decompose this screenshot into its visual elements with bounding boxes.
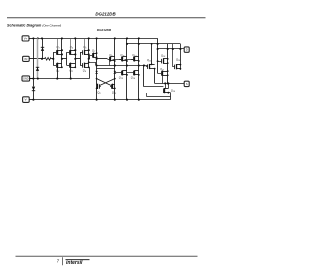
svg-text:Q1: Q1 bbox=[56, 45, 59, 50]
wire rail to IN vertical bbox=[42, 38, 44, 58]
wire gate link A bbox=[113, 59, 122, 61]
footer divider bbox=[62, 257, 64, 265]
transistor Q4 bbox=[67, 63, 77, 74]
wire Q17 gate feed bbox=[158, 73, 162, 75]
transistor Q14 bbox=[131, 70, 140, 80]
node IN-x42 bbox=[41, 58, 43, 60]
wire LS top bar bbox=[97, 68, 115, 70]
svg-text:IN: IN bbox=[24, 57, 27, 61]
wire stage2 V+ feed bbox=[70, 38, 72, 50]
terminal S bbox=[184, 81, 189, 86]
wire S line bbox=[155, 82, 185, 84]
wire stage1 V+ feed bbox=[57, 38, 59, 50]
transistor Q1 bbox=[53, 45, 63, 55]
wire stage3 gate vertical bbox=[80, 52, 82, 65]
wire Q19 lower link bbox=[146, 93, 170, 97]
svg-text:Q19: Q19 bbox=[171, 88, 176, 93]
transistor Q7 bbox=[89, 48, 97, 58]
transistor Q18 bbox=[175, 58, 182, 70]
transistor Q3 bbox=[67, 45, 77, 55]
wire stage3 output link bbox=[88, 58, 90, 60]
wire column B vertical bbox=[126, 38, 128, 100]
wire stage2 output link bbox=[74, 58, 80, 60]
wire Q17 source drop bbox=[162, 75, 164, 83]
transistor Q16 bbox=[161, 54, 169, 64]
wire level-shift right vertical bbox=[114, 38, 116, 100]
svg-text:Q7: Q7 bbox=[92, 48, 96, 53]
footer intersil logo bbox=[66, 260, 90, 267]
node rail-x127 bbox=[126, 37, 128, 39]
header part number bbox=[95, 12, 116, 17]
transistor Q11 bbox=[119, 53, 128, 62]
wire cross couple B bbox=[99, 78, 115, 86]
diode D1 bbox=[41, 47, 44, 51]
transistor Q9 bbox=[108, 53, 116, 62]
node GND-x37 bbox=[37, 78, 39, 80]
terminal GND bbox=[22, 76, 33, 81]
wire Q19 to V- bbox=[168, 92, 170, 94]
transistor Q15 bbox=[146, 58, 156, 69]
svg-text:D: D bbox=[186, 48, 188, 52]
svg-text:Q17: Q17 bbox=[160, 68, 165, 72]
wire R1 to stage1 bbox=[51, 58, 54, 60]
wire cross couple A bbox=[96, 78, 112, 86]
footer rule bbox=[16, 255, 198, 257]
transistor Q5 bbox=[80, 45, 90, 55]
schematic caption label bbox=[97, 28, 112, 32]
terminal V- bbox=[23, 97, 34, 103]
svg-text:intersil: intersil bbox=[66, 260, 83, 266]
wire Q18 gate feed bbox=[173, 44, 175, 67]
wire GND rail bbox=[30, 67, 90, 78]
wire level-shift left vertical bbox=[96, 38, 98, 100]
wire T_a source down bbox=[109, 61, 111, 66]
header rule bbox=[7, 17, 206, 19]
wire V+ to V- vertical bbox=[33, 38, 35, 99]
transistor Q10 bbox=[110, 84, 117, 95]
wire H1 top link bbox=[126, 43, 181, 70]
wire chain to Q9 gate bbox=[96, 58, 108, 60]
svg-text:Q13: Q13 bbox=[119, 76, 124, 81]
current mark right bbox=[114, 71, 117, 74]
wire stage2 source to GND bbox=[70, 67, 72, 79]
diode D3 bbox=[32, 87, 35, 91]
svg-text:Q16: Q16 bbox=[161, 54, 166, 59]
wire rail to GND vertical bbox=[37, 38, 39, 78]
node V--x33 bbox=[32, 99, 34, 101]
node rail-x37 bbox=[37, 37, 39, 39]
svg-text:Q11: Q11 bbox=[120, 53, 124, 58]
node rail-x115 bbox=[114, 37, 116, 39]
wire gate link B bbox=[125, 59, 134, 61]
transistor Q12 bbox=[131, 53, 140, 62]
wire stage2 gate vertical bbox=[66, 52, 68, 65]
wire Q19 drain up bbox=[165, 83, 167, 88]
transistor Q6 bbox=[80, 63, 90, 74]
transistor Q8 bbox=[96, 84, 102, 95]
svg-text:Q4: Q4 bbox=[69, 69, 72, 74]
svg-text:Schematic Diagram (One Channel: Schematic Diagram (One Channel) bbox=[7, 23, 61, 27]
svg-text:Q5: Q5 bbox=[83, 45, 87, 50]
node rail-x33 bbox=[32, 37, 34, 39]
transistor Q2 bbox=[53, 63, 63, 74]
wire Q15 drain up bbox=[149, 44, 152, 65]
svg-text:Q8: Q8 bbox=[97, 90, 101, 95]
svg-text:Q2: Q2 bbox=[56, 69, 60, 74]
wire x167 vertical bbox=[167, 44, 169, 85]
wire stage1 gate vertical bbox=[53, 52, 55, 65]
wire Q16 gate feed bbox=[157, 60, 162, 62]
svg-text:Q6: Q6 bbox=[83, 69, 87, 74]
transistor Q17 bbox=[160, 68, 168, 76]
svg-text:S: S bbox=[186, 82, 188, 86]
terminal V+ bbox=[22, 36, 33, 41]
wire stage4 gate vertical bbox=[89, 55, 91, 59]
wire stage1 output link bbox=[61, 58, 67, 60]
wire stage3 V+ feed bbox=[84, 38, 86, 50]
svg-text:GND: GND bbox=[23, 78, 29, 81]
node GND-x33 bbox=[32, 78, 34, 80]
wire V+ rail bbox=[33, 38, 157, 73]
resistor R1 bbox=[45, 58, 52, 61]
svg-text:DG212DB: DG212DB bbox=[97, 28, 112, 32]
wire stage3 output vertical bbox=[88, 37, 90, 67]
node rail-x42 bbox=[41, 37, 43, 39]
wire stage1 source to GND bbox=[56, 67, 58, 79]
node rail-x139 bbox=[138, 37, 140, 39]
svg-text:V+: V+ bbox=[24, 36, 28, 40]
svg-text:Q14: Q14 bbox=[131, 76, 135, 81]
footer page number bbox=[57, 258, 60, 263]
svg-text:7: 7 bbox=[57, 258, 60, 263]
wire stage2 output vertical bbox=[74, 37, 76, 67]
wire D line bbox=[157, 48, 185, 50]
wire V- rail bbox=[33, 93, 170, 100]
diode D2 bbox=[36, 67, 39, 71]
wire Q14 gate feed bbox=[127, 72, 133, 74]
wire stage1 output vertical bbox=[61, 37, 63, 67]
svg-text:V-: V- bbox=[25, 98, 28, 102]
page title bbox=[7, 23, 61, 27]
terminal D bbox=[184, 47, 189, 52]
transistor Q19 bbox=[164, 88, 177, 94]
current mark left bbox=[95, 71, 98, 74]
terminal IN bbox=[23, 56, 45, 61]
wire mid bar y65.5 bbox=[96, 64, 148, 66]
wire feedback vertical bbox=[143, 64, 164, 86]
svg-text:DG212DB: DG212DB bbox=[95, 12, 116, 17]
wire Q19 source link bbox=[168, 83, 170, 88]
node rail-x96 bbox=[96, 37, 98, 39]
wire Q15 source to S bbox=[154, 69, 156, 84]
wire column C vertical bbox=[138, 38, 140, 100]
transistor Q13 bbox=[119, 70, 128, 80]
wire Q13 gate feed bbox=[115, 72, 122, 74]
wire stage3 z-link bbox=[88, 61, 96, 65]
